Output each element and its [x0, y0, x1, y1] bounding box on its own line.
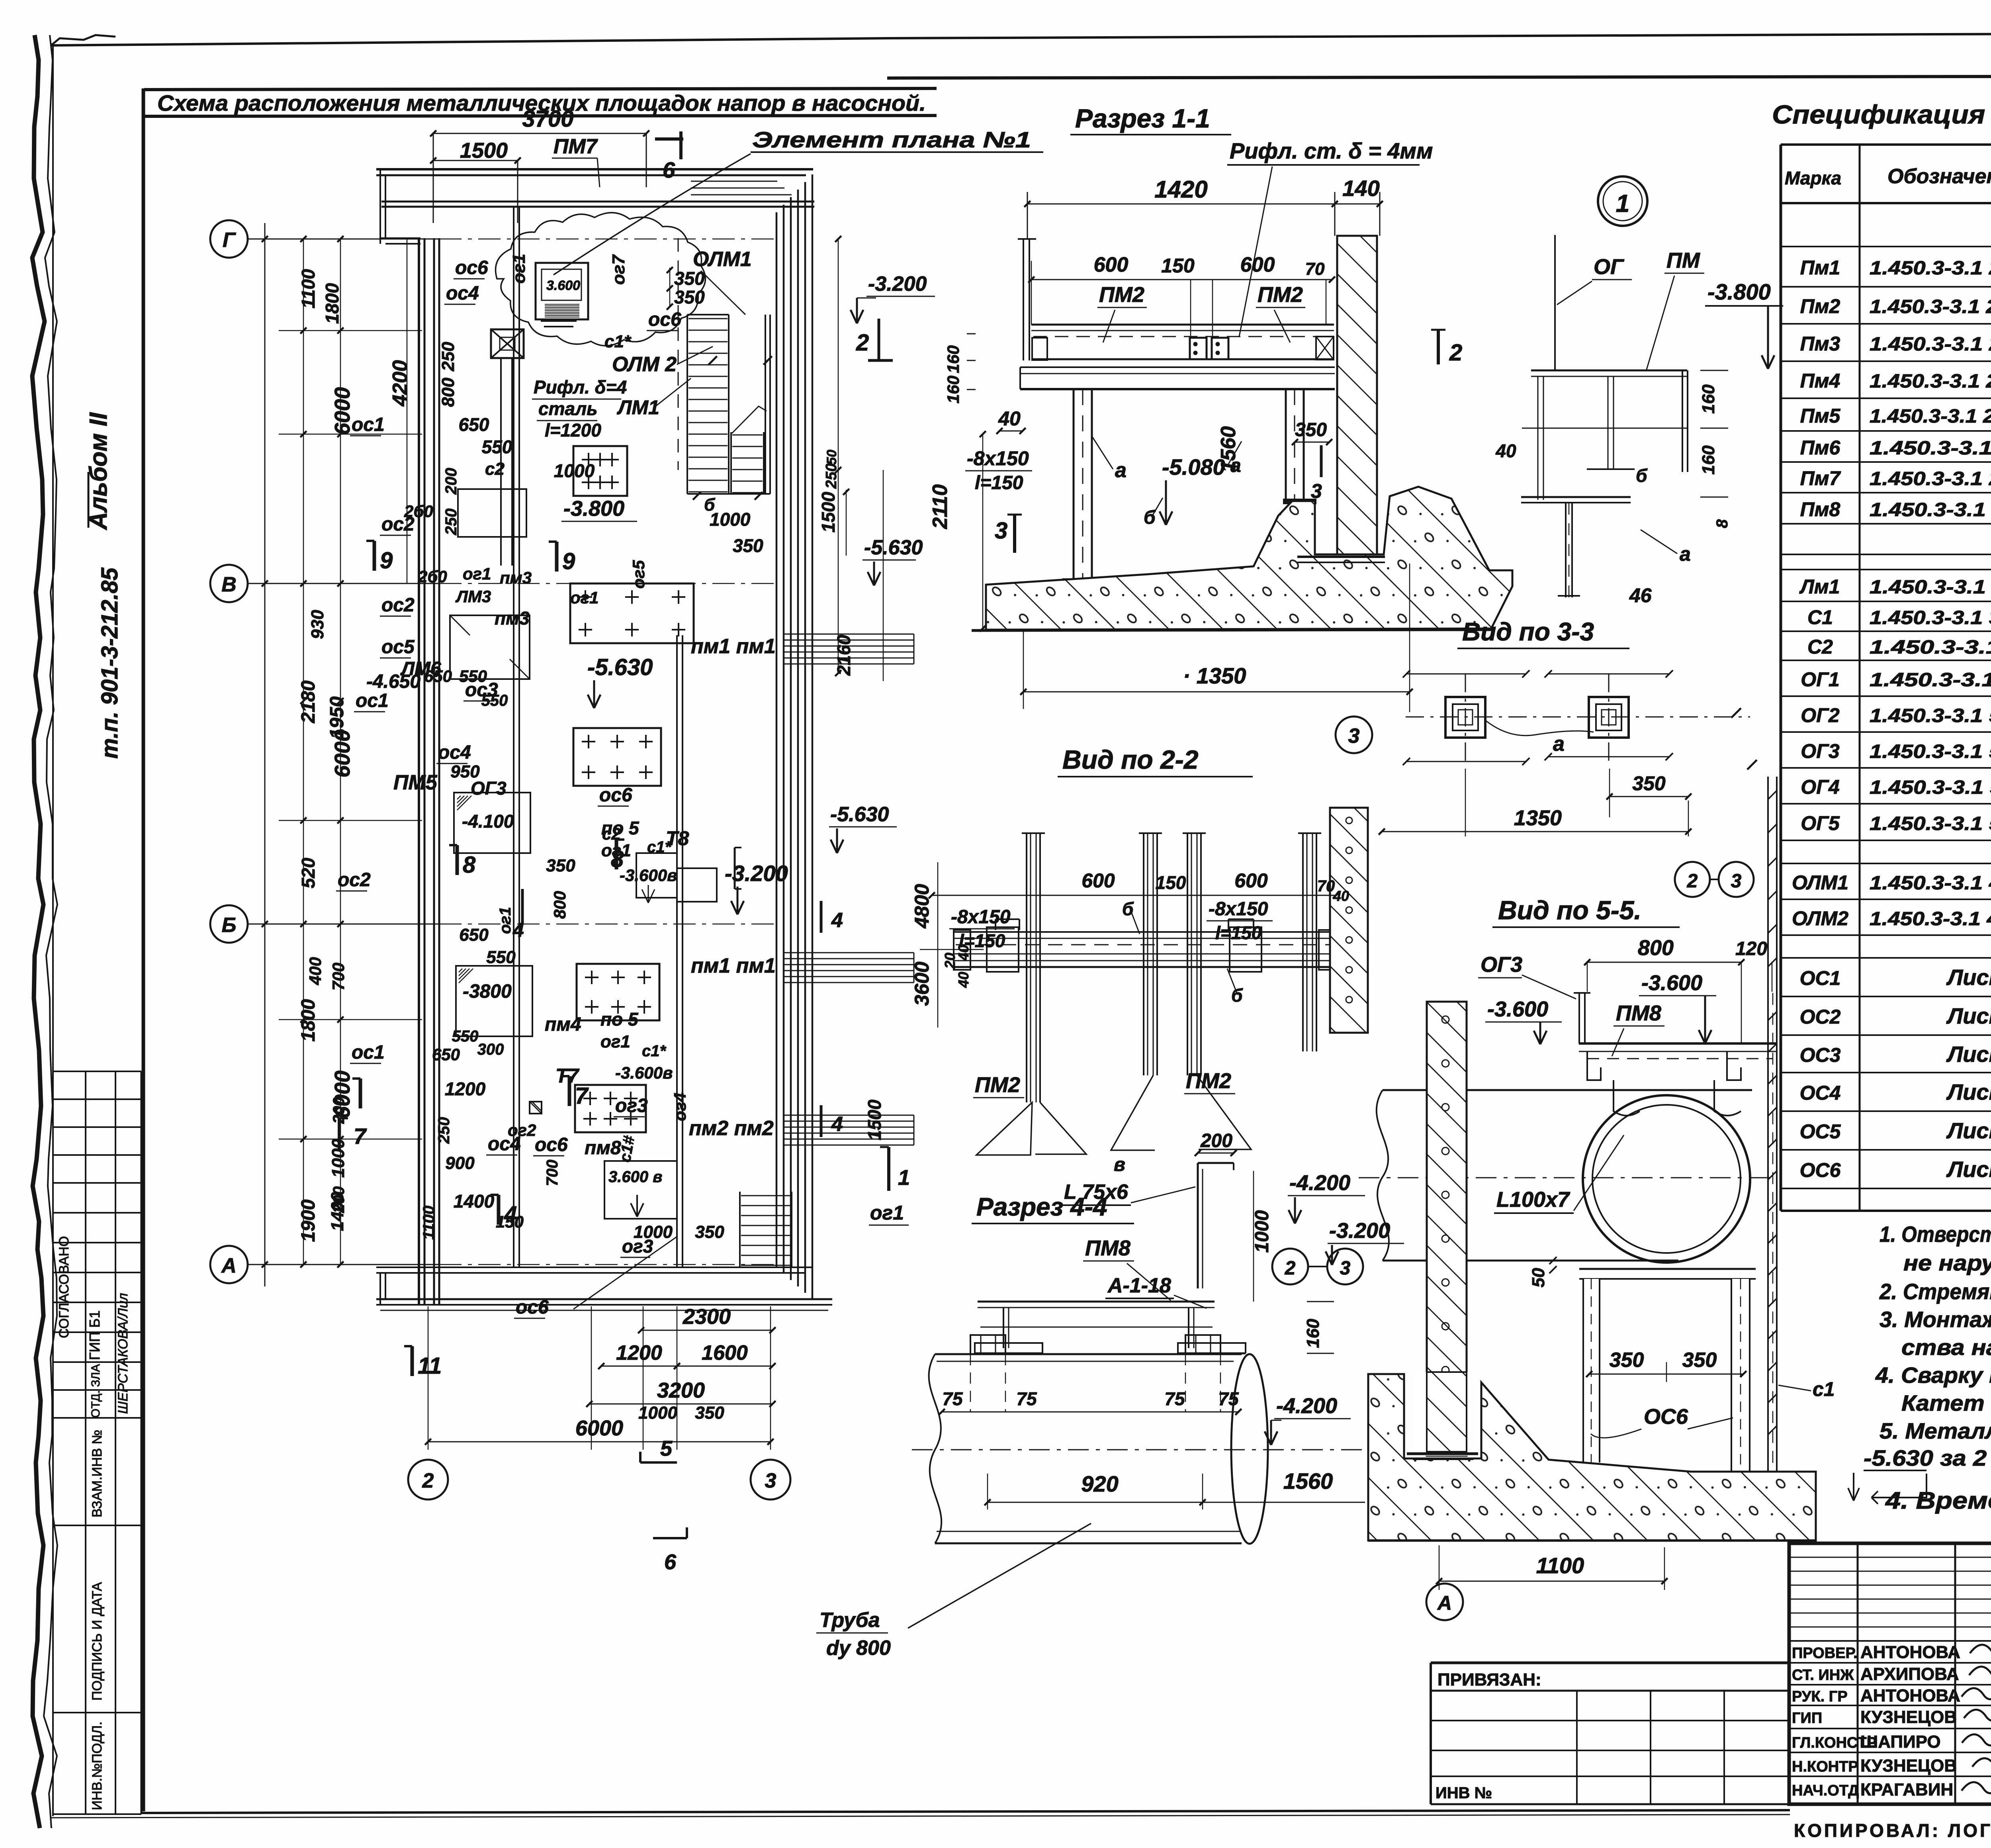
svg-text:-4.650: -4.650	[366, 671, 420, 692]
svg-text:ог1: ог1	[497, 907, 514, 934]
svg-text:ос6: ос6	[648, 309, 681, 330]
svg-text:1.450.3-3.1 2.1.1.0.0.- 03: 1.450.3-3.1 2.1.1.0.0.- 03	[1870, 406, 1991, 427]
svg-text:ОГ: ОГ	[1594, 255, 1625, 279]
svg-text:ог1: ог1	[600, 1032, 630, 1051]
svg-text:75: 75	[1164, 1388, 1185, 1409]
svg-text:-3.600в: -3.600в	[615, 1063, 673, 1082]
svg-text:650: 650	[432, 1045, 460, 1064]
svg-text:3. Монтаж площадок и опор прои: 3. Монтаж площадок и опор производить до…	[1880, 1307, 1991, 1332]
svg-text:-4.200: -4.200	[1276, 1394, 1337, 1418]
svg-text:Г: Г	[223, 229, 236, 252]
svg-text:Т7: Т7	[555, 1065, 580, 1087]
svg-text:L 75x6: L 75x6	[1064, 1180, 1128, 1204]
svg-text:сталь: сталь	[538, 398, 598, 419]
svg-text:800: 800	[1638, 936, 1674, 960]
svg-text:-5.080: -5.080	[1162, 454, 1225, 480]
svg-text:-3.800: -3.800	[563, 497, 624, 521]
svg-text:а: а	[1115, 459, 1127, 482]
svg-text:1.450.3-3.1 3.1.0.1.0: 1.450.3-3.1 3.1.0.1.0	[1870, 637, 1991, 658]
svg-text:-8x150: -8x150	[951, 906, 1011, 928]
svg-text:ог1: ог1	[870, 1202, 904, 1224]
svg-text:ИНВ №: ИНВ №	[1436, 1784, 1492, 1802]
svg-text:1400: 1400	[454, 1191, 495, 1212]
svg-text:ЛМ1: ЛМ1	[617, 396, 659, 419]
svg-text:ОС5: ОС5	[1800, 1120, 1841, 1143]
svg-text:ог1: ог1	[463, 564, 491, 583]
svg-text:1100: 1100	[420, 1206, 438, 1240]
svg-text:-5.630 за 2 раза (гост 695-7: -5.630 за 2 раза (гост 695-77)	[1864, 1445, 1991, 1470]
svg-text:4200: 4200	[389, 360, 412, 407]
svg-text:ИНВ.№ПОДЛ.: ИНВ.№ПОДЛ.	[90, 1721, 105, 1810]
svg-text:550: 550	[482, 437, 512, 457]
svg-text:350: 350	[1682, 1349, 1717, 1372]
svg-text:ства надбетонки.: ства надбетонки.	[1901, 1335, 1991, 1360]
svg-text:-3.600: -3.600	[1641, 971, 1702, 995]
svg-text:-4.200: -4.200	[1289, 1171, 1350, 1195]
svg-text:1.450.3-3.1 3.1.0.1.0-02: 1.450.3-3.1 3.1.0.1.0-02	[1870, 607, 1991, 628]
svg-text:350: 350	[1295, 419, 1327, 440]
svg-text:ОС3: ОС3	[1800, 1044, 1841, 1066]
svg-text:-8x150: -8x150	[967, 447, 1029, 470]
svg-text:ПОДПИСЬ И ДАТА: ПОДПИСЬ И ДАТА	[90, 1582, 105, 1701]
svg-text:2180: 2180	[298, 680, 319, 723]
svg-text:3: 3	[1731, 871, 1742, 892]
svg-text:70: 70	[1305, 259, 1325, 279]
svg-text:250: 250	[438, 342, 458, 372]
svg-text:АНТОНОВА: АНТОНОВА	[1860, 1642, 1960, 1662]
svg-text:350: 350	[733, 535, 763, 556]
svg-text:1.450.3-3.1 5.1.0.1.0-08: 1.450.3-3.1 5.1.0.1.0-08	[1870, 813, 1991, 834]
svg-text:40: 40	[1495, 440, 1516, 461]
svg-text:РУК. ГР: РУК. ГР	[1792, 1688, 1848, 1705]
svg-text:Лист 6: Лист 6	[1946, 965, 1991, 990]
svg-text:1420: 1420	[1154, 176, 1207, 203]
svg-text:АРХИПОВА: АРХИПОВА	[1860, 1664, 1959, 1684]
svg-text:6000: 6000	[331, 387, 354, 435]
svg-text:1200: 1200	[616, 1341, 662, 1364]
svg-text:Пм8: Пм8	[1800, 498, 1840, 521]
svg-text:ОГ2: ОГ2	[1801, 704, 1840, 726]
svg-text:Лм1: Лм1	[1799, 576, 1840, 598]
svg-text:1350: 1350	[1514, 806, 1562, 830]
svg-text:1000: 1000	[1252, 1210, 1273, 1253]
svg-text:ШЕРСТАКОВА/Лил: ШЕРСТАКОВА/Лил	[115, 1293, 131, 1414]
svg-text:520: 520	[298, 857, 319, 888]
svg-text:4: 4	[504, 1202, 517, 1227]
svg-text:l=1200: l=1200	[545, 420, 601, 440]
svg-text:пм4: пм4	[545, 1014, 581, 1035]
svg-text:9: 9	[562, 548, 575, 574]
svg-text:ПМ2: ПМ2	[1099, 283, 1144, 307]
svg-text:5. Металлоконструкции окрасить: 5. Металлоконструкции окрасить масляной …	[1880, 1418, 1991, 1443]
svg-text:ОС6: ОС6	[1644, 1405, 1688, 1429]
svg-text:Рифл. δ=4: Рифл. δ=4	[534, 377, 627, 397]
svg-text:600: 600	[1094, 253, 1128, 276]
svg-text:с1*: с1*	[604, 332, 632, 351]
svg-text:70: 70	[1317, 877, 1335, 895]
svg-text:8: 8	[1713, 519, 1731, 528]
svg-text:а: а	[1680, 543, 1691, 565]
svg-text:Б: Б	[222, 914, 237, 937]
svg-text:Пм2: Пм2	[1800, 295, 1840, 317]
svg-text:ЛМ3: ЛМ3	[455, 587, 491, 606]
svg-text:160: 160	[1699, 445, 1718, 475]
svg-text:б: б	[1231, 985, 1243, 1006]
svg-text:1.450.3-3.1 2.1.1.00 - 08: 1.450.3-3.1 2.1.1.00 - 08	[1870, 371, 1991, 392]
svg-text:1.450.3-3.1 2.1.1.0.0-02: 1.450.3-3.1 2.1.1.0.0-02	[1870, 468, 1991, 489]
svg-text:600: 600	[1082, 869, 1115, 892]
svg-text:600: 600	[1234, 869, 1268, 892]
svg-text:1.450.3-3.1 2.1.1.0.0-01: 1.450.3-3.1 2.1.1.0.0-01	[1870, 334, 1991, 355]
svg-text:ос5: ос5	[381, 636, 415, 658]
svg-text:400: 400	[306, 957, 325, 985]
svg-text:ПМ8: ПМ8	[1616, 1001, 1661, 1025]
svg-text:Лист 6: Лист 6	[1946, 1118, 1991, 1143]
svg-text:ос6: ос6	[516, 1297, 549, 1318]
svg-text:-3.200: -3.200	[868, 272, 927, 296]
svg-text:dy 800: dy 800	[826, 1637, 891, 1660]
svg-text:ПМ5: ПМ5	[393, 771, 438, 794]
svg-text:ос3: ос3	[465, 679, 498, 701]
svg-text:ОЛМ1: ОЛМ1	[1792, 871, 1848, 894]
svg-text:ос1: ос1	[356, 690, 389, 711]
svg-text:ос6: ос6	[455, 257, 488, 278]
svg-text:250: 250	[435, 1117, 453, 1144]
svg-text:Н.КОНТР: Н.КОНТР	[1792, 1758, 1858, 1775]
svg-text:700: 700	[544, 1160, 561, 1186]
svg-text:с2: с2	[485, 459, 505, 479]
svg-text:АНТОНОВА: АНТОНОВА	[1860, 1686, 1960, 1705]
svg-text:2: 2	[422, 1469, 434, 1492]
svg-text:пм3: пм3	[495, 608, 530, 628]
svg-text:Пм4: Пм4	[1800, 370, 1840, 392]
svg-text:ог3: ог3	[615, 1095, 648, 1116]
svg-text:1560: 1560	[1283, 1468, 1333, 1494]
svg-text:1.450.3-3.1 5.1.0.1.0-01: 1.450.3-3.1 5.1.0.1.0-01	[1870, 741, 1991, 762]
svg-text:Труба: Труба	[819, 1609, 880, 1632]
svg-text:900: 900	[445, 1153, 475, 1173]
svg-text:ОГ3: ОГ3	[471, 778, 507, 799]
svg-text:ОС1: ОС1	[1800, 967, 1841, 989]
svg-text:КОПИРОВАЛ: ЛОГИНОВА: КОПИРОВАЛ: ЛОГИНОВА	[1794, 1820, 1991, 1841]
svg-text:2: 2	[1687, 871, 1698, 892]
svg-text:Лист 6: Лист 6	[1946, 1157, 1991, 1182]
svg-text:8: 8	[611, 846, 624, 872]
svg-text:Марка: Марка	[1785, 168, 1841, 188]
svg-text:-4.100: -4.100	[462, 811, 514, 832]
svg-text:50: 50	[824, 450, 839, 465]
svg-text:С2: С2	[1807, 636, 1833, 658]
svg-text:7: 7	[354, 1124, 367, 1149]
svg-text:ОГ4: ОГ4	[1801, 776, 1839, 798]
svg-text:3200: 3200	[657, 1378, 705, 1402]
svg-text:СОГЛАСОВАНО: СОГЛАСОВАНО	[57, 1236, 72, 1338]
svg-text:1.450.3-3.1 5.1.0.1.0-11: 1.450.3-3.1 5.1.0.1.0-11	[1870, 777, 1991, 798]
svg-text:Пм3: Пм3	[1800, 333, 1840, 355]
svg-text:50: 50	[1529, 1268, 1548, 1287]
svg-text:Спецификация элементов к метал: Спецификация элементов к металлическим п…	[1772, 100, 1991, 129]
svg-text:1100: 1100	[298, 269, 319, 308]
svg-text:ПМ2: ПМ2	[975, 1073, 1020, 1097]
svg-text:ШАПИРО: ШАПИРО	[1860, 1732, 1941, 1752]
svg-text:КРАГАВИН: КРАГАВИН	[1860, 1780, 1953, 1799]
svg-text:ПМ8: ПМ8	[1085, 1236, 1130, 1260]
svg-text:200: 200	[1200, 1130, 1232, 1151]
svg-text:Обозначение: Обозначение	[1887, 165, 1991, 188]
svg-text:Пм6: Пм6	[1800, 437, 1841, 459]
svg-text:3: 3	[765, 1469, 776, 1492]
svg-text:l=150: l=150	[959, 930, 1005, 951]
svg-text:ПРИВЯЗАН:: ПРИВЯЗАН:	[1438, 1670, 1541, 1689]
svg-text:-8x150: -8x150	[1209, 899, 1268, 920]
svg-text:3: 3	[995, 518, 1007, 544]
svg-text:-3.800: -3.800	[1707, 279, 1771, 304]
svg-text:-5.630: -5.630	[864, 536, 923, 559]
svg-text:ОЛМ 2: ОЛМ 2	[612, 353, 677, 376]
svg-text:с1*: с1*	[642, 1042, 667, 1060]
svg-text:1: 1	[1616, 190, 1629, 217]
svg-text:350: 350	[695, 1403, 724, 1423]
svg-text:ос2: ос2	[338, 869, 371, 891]
svg-text:4800: 4800	[911, 884, 933, 928]
svg-text:2110: 2110	[929, 484, 952, 529]
svg-text:350: 350	[674, 287, 705, 307]
svg-text:1500: 1500	[460, 139, 508, 162]
svg-text:150: 150	[1156, 872, 1186, 893]
svg-text:1500: 1500	[864, 1099, 885, 1140]
svg-text:ог1: ог1	[509, 254, 529, 284]
svg-text:-3800: -3800	[463, 981, 512, 1002]
svg-text:-3.200: -3.200	[725, 861, 788, 886]
svg-text:800: 800	[438, 378, 458, 407]
svg-text:ОГ3: ОГ3	[1481, 953, 1522, 977]
svg-text:3.600 в: 3.600 в	[608, 1168, 662, 1186]
svg-text:1600: 1600	[702, 1341, 748, 1364]
svg-text:l=150: l=150	[1215, 922, 1262, 943]
svg-text:ог1: ог1	[570, 588, 598, 607]
svg-text:4: 4	[512, 919, 524, 941]
svg-text:в: в	[1114, 1154, 1125, 1175]
svg-text:ог2: ог2	[508, 1121, 536, 1139]
svg-text:с1: с1	[1813, 1378, 1835, 1400]
svg-text:46: 46	[1629, 584, 1652, 607]
svg-text:160: 160	[944, 376, 962, 403]
svg-text:2: 2	[856, 330, 869, 356]
svg-text:-3.600в: -3.600в	[620, 866, 677, 885]
svg-text:пм2 пм2: пм2 пм2	[689, 1117, 774, 1140]
svg-text:1.450.3-3.1 2.1.1.0.0.-21: 1.450.3-3.1 2.1.1.0.0.-21	[1870, 296, 1991, 317]
svg-text:не нарушая ребер площадки.: не нарушая ребер площадки.	[1903, 1250, 1991, 1275]
svg-text:ог7: ог7	[609, 254, 628, 285]
svg-text:160: 160	[1699, 384, 1718, 414]
svg-text:а: а	[1553, 732, 1565, 756]
svg-text:2. Стремянку с 1* укоротить сн: 2. Стремянку с 1* укоротить снизу на 370…	[1879, 1279, 1991, 1304]
svg-text:б: б	[1144, 507, 1156, 528]
svg-text:Лист 7: Лист 7	[1946, 1041, 1991, 1067]
svg-text:1100: 1100	[1536, 1553, 1584, 1578]
svg-text:А-1-18: А-1-18	[1107, 1274, 1171, 1297]
svg-text:ог3: ог3	[622, 1236, 653, 1257]
svg-text:В: В	[221, 573, 237, 596]
svg-text:160: 160	[944, 345, 962, 373]
svg-text:2б0: 2б0	[404, 502, 433, 521]
svg-text:А: А	[1437, 1592, 1452, 1614]
svg-text:-5.630: -5.630	[587, 654, 653, 680]
svg-text:КУЗНЕЦОВ: КУЗНЕЦОВ	[1860, 1707, 1957, 1727]
svg-text:Разрез 1-1: Разрез 1-1	[1075, 104, 1210, 133]
svg-text:КУЗНЕЦОВ: КУЗНЕЦОВ	[1860, 1756, 1957, 1776]
svg-text:Пм7: Пм7	[1800, 467, 1841, 489]
svg-text:ОС2: ОС2	[1800, 1006, 1841, 1028]
svg-text:ОГ5: ОГ5	[1801, 812, 1840, 834]
svg-text:1.450.3-3.1 5.1.0.1.0-03: 1.450.3-3.1 5.1.0.1.0-03	[1870, 705, 1991, 726]
svg-text:650: 650	[459, 925, 489, 945]
svg-text:930: 930	[308, 610, 327, 639]
svg-text:350: 350	[674, 268, 705, 289]
svg-text:1400: 1400	[328, 1192, 347, 1231]
svg-text:160: 160	[1303, 1319, 1323, 1348]
svg-text:1.450.3-3.1 4.1.2.1.0- 11: 1.450.3-3.1 4.1.2.1.0- 11	[1870, 908, 1991, 930]
svg-text:700: 700	[329, 963, 348, 991]
svg-text:6000: 6000	[575, 1416, 623, 1440]
svg-text:ОС4: ОС4	[1800, 1082, 1841, 1104]
svg-text:1000: 1000	[638, 1403, 677, 1423]
svg-text:ПМ: ПМ	[1666, 249, 1700, 272]
svg-text:ОГ1: ОГ1	[1801, 668, 1839, 691]
svg-text:ПМ7: ПМ7	[553, 135, 598, 158]
svg-text:1000: 1000	[710, 509, 751, 530]
svg-text:Вид по 5-5.: Вид по 5-5.	[1498, 895, 1641, 925]
svg-text:Пм1: Пм1	[1800, 256, 1840, 279]
svg-text:Вид по 2-2: Вид по 2-2	[1062, 745, 1199, 774]
svg-text:40: 40	[1333, 888, 1349, 904]
svg-text:1.450.3-3.1 1.2.1.00-06: 1.450.3-3.1 1.2.1.00-06	[1870, 577, 1991, 598]
svg-text:-3.600: -3.600	[1487, 997, 1548, 1021]
svg-text:40: 40	[955, 972, 972, 988]
svg-text:С1: С1	[1807, 606, 1833, 628]
svg-text:Рифл. ст. δ = 4мм: Рифл. ст. δ = 4мм	[1230, 138, 1433, 163]
svg-text:1.450.3-3.1 4.1.2.1.0-02: 1.450.3-3.1 4.1.2.1.0-02	[1870, 873, 1991, 894]
svg-text:550: 550	[486, 947, 516, 967]
svg-text:ос6: ос6	[599, 785, 632, 806]
svg-text:ос4: ос4	[446, 283, 479, 304]
svg-text:250: 250	[823, 463, 840, 489]
svg-text:350: 350	[1610, 1349, 1644, 1372]
svg-text:Элемент плана №1: Элемент плана №1	[752, 127, 1031, 152]
svg-text:3.600: 3.600	[546, 278, 580, 293]
svg-text:2: 2	[1285, 1258, 1296, 1279]
svg-text:3700: 3700	[522, 106, 573, 132]
svg-text:СТ. ИНЖ: СТ. ИНЖ	[1792, 1667, 1854, 1684]
svg-text:350: 350	[695, 1222, 724, 1242]
svg-text:1950: 1950	[327, 696, 348, 739]
svg-text:2: 2	[1449, 340, 1462, 366]
svg-text:· 1350: · 1350	[1183, 663, 1246, 688]
svg-text:2300: 2300	[683, 1305, 731, 1329]
svg-text:по 5: по 5	[600, 1009, 639, 1030]
svg-text:ОГ3: ОГ3	[1801, 740, 1840, 762]
svg-text:3: 3	[1340, 1258, 1351, 1279]
svg-text:150: 150	[1161, 254, 1195, 277]
svg-text:пм8: пм8	[585, 1137, 621, 1159]
svg-text:2160: 2160	[833, 634, 854, 676]
svg-text:Лист 7: Лист 7	[1946, 1079, 1991, 1104]
svg-text:ПРОВЕР.: ПРОВЕР.	[1792, 1645, 1858, 1662]
svg-text:НАЧ.ОТД: НАЧ.ОТД	[1792, 1782, 1859, 1799]
svg-text:ОЛМ2: ОЛМ2	[1792, 907, 1848, 930]
svg-text:пм1 пм1: пм1 пм1	[691, 635, 776, 658]
svg-text:1.450.3-3.1 5.1.0.1.0-: 1.450.3-3.1 5.1.0.1.0-	[1870, 670, 1991, 691]
svg-text:350: 350	[1632, 772, 1666, 795]
svg-text:т.п. 901-3-212.85: т.п. 901-3-212.85	[97, 568, 123, 759]
svg-text:140: 140	[1342, 176, 1379, 201]
svg-text:ос4: ос4	[438, 742, 471, 763]
svg-text:Вид по 3-3: Вид по 3-3	[1462, 617, 1594, 646]
svg-text:4. Сварку производить электрод: 4. Сварку производить электродами Э-42 г…	[1875, 1363, 1991, 1388]
svg-text:120: 120	[1735, 938, 1767, 959]
svg-text:ОТД. ЗЛА: ОТД. ЗЛА	[89, 1364, 102, 1418]
svg-text:600: 600	[1240, 253, 1275, 276]
svg-text:L100x7: L100x7	[1496, 1188, 1571, 1212]
svg-text:ос2: ос2	[381, 595, 415, 616]
svg-text:1.450.3-3.1 2.1.1.00: 1.450.3-3.1 2.1.1.00	[1870, 438, 1991, 459]
svg-text:2б0: 2б0	[418, 567, 447, 586]
svg-text:11: 11	[418, 1353, 442, 1379]
svg-text:75: 75	[942, 1388, 963, 1409]
svg-text:ос1: ос1	[352, 1042, 385, 1063]
svg-text:1500: 1500	[818, 491, 839, 532]
svg-text:3: 3	[1311, 480, 1322, 502]
svg-text:1.450.3-3.1 2.1.1.00 -27: 1.450.3-3.1 2.1.1.00 -27	[1870, 258, 1991, 279]
svg-text:40: 40	[998, 407, 1021, 430]
svg-text:300: 300	[477, 1041, 504, 1058]
svg-text:пм1 пм1: пм1 пм1	[691, 954, 776, 977]
svg-text:75: 75	[1218, 1388, 1239, 1409]
svg-text:ГИП Б1: ГИП Б1	[86, 1310, 103, 1360]
svg-text:ОС6: ОС6	[1800, 1159, 1841, 1181]
svg-text:920: 920	[1081, 1471, 1118, 1496]
svg-text:4: 4	[831, 1113, 843, 1136]
svg-text:ос6: ос6	[535, 1134, 568, 1155]
svg-text:-5.630: -5.630	[830, 803, 889, 826]
svg-text:ПМ2: ПМ2	[1186, 1069, 1231, 1093]
svg-text:75: 75	[1016, 1388, 1037, 1409]
svg-text:9: 9	[380, 548, 393, 574]
svg-text:ГИП: ГИП	[1792, 1710, 1822, 1727]
svg-text:ПМ2: ПМ2	[1258, 283, 1303, 307]
svg-text:б: б	[1636, 465, 1648, 486]
svg-text:800: 800	[550, 891, 569, 919]
svg-text:Катет шва = 6 мм.: Катет шва = 6 мм.	[1901, 1390, 1991, 1415]
svg-text:3: 3	[1348, 724, 1360, 748]
svg-text:6: 6	[664, 1550, 677, 1574]
svg-text:1200: 1200	[445, 1079, 486, 1099]
svg-text:А: А	[221, 1254, 237, 1277]
svg-text:4: 4	[831, 909, 843, 932]
svg-text:1: 1	[898, 1166, 910, 1190]
svg-text:-3.200: -3.200	[1329, 1219, 1390, 1243]
svg-text:4. Временная нагрузка на пл: 4. Временная нагрузка на площадки - 3. 9…	[1885, 1487, 1991, 1514]
svg-text:350: 350	[546, 856, 575, 875]
svg-text:Т8: Т8	[666, 827, 689, 850]
svg-text:ОЛМ1: ОЛМ1	[693, 248, 752, 271]
svg-text:1900: 1900	[298, 1199, 319, 1242]
svg-text:Пм5: Пм5	[1800, 405, 1841, 427]
svg-text:5: 5	[660, 1437, 673, 1460]
svg-text:пм3: пм3	[500, 568, 532, 587]
svg-text:8: 8	[463, 852, 476, 878]
svg-text:6: 6	[663, 157, 675, 182]
